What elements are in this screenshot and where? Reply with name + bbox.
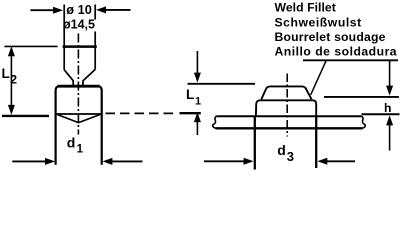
svg-text:Schweißwulst: Schweißwulst bbox=[275, 15, 362, 29]
svg-text:ø14,5: ø14,5 bbox=[63, 17, 95, 31]
weld fillet upper tier (stud flange) bbox=[261, 86, 311, 99]
svg-text:h: h bbox=[384, 101, 391, 115]
stud body d1 bbox=[56, 86, 102, 165]
centerline left figure bbox=[77, 34, 79, 135]
plate left broken edge bbox=[213, 116, 217, 128]
svg-text:Weld Fillet: Weld Fillet bbox=[275, 1, 336, 15]
L2 top extension line bbox=[5, 45, 58, 47]
weld fillet lower tier bbox=[256, 100, 316, 115]
underline of label bbox=[303, 59, 398, 61]
solid segment at L1 arrow bbox=[180, 112, 201, 114]
dashed weld-plane line between figures bbox=[106, 112, 179, 114]
L1 top extension line bbox=[188, 83, 256, 85]
svg-text:Bourrelet soudage: Bourrelet soudage bbox=[275, 30, 386, 44]
cone transition bbox=[64, 69, 95, 85]
h down arrow bbox=[386, 61, 393, 96]
extension line ø10 left bbox=[63, 5, 65, 47]
plate top edge bbox=[217, 115, 362, 117]
L1 up arrow bbox=[194, 112, 201, 135]
plate right broken edge bbox=[362, 116, 366, 128]
h up arrow bbox=[386, 115, 393, 150]
L2 dimension line with arrows bbox=[8, 46, 15, 115]
dimension arrow ø10 left bbox=[31, 7, 64, 14]
d3 extension line left bbox=[254, 116, 256, 170]
leader line to weld fillet bbox=[311, 60, 327, 95]
L1 down arrow bbox=[194, 51, 201, 83]
d3 extension line right bbox=[315, 116, 317, 168]
svg-text:ø 10: ø 10 bbox=[66, 2, 92, 17]
centerline right figure bbox=[286, 74, 288, 137]
tip chamfer V bbox=[57, 114, 101, 122]
weld plane line in body bbox=[57, 113, 101, 115]
d1 dimension arrows bbox=[12, 158, 142, 165]
extension line ø10 right (gap at text) bbox=[94, 5, 96, 47]
plate bottom edge bbox=[216, 127, 363, 129]
L2 bottom extension line bbox=[2, 115, 49, 117]
h bottom extension line bbox=[362, 113, 400, 115]
stud flange (cup) bbox=[63, 46, 97, 70]
d3 dimension arrows bbox=[204, 158, 355, 165]
h top extension line bbox=[324, 96, 399, 98]
svg-text:Anillo de soldadura: Anillo de soldadura bbox=[275, 45, 398, 59]
dimension arrow ø10 right bbox=[96, 6, 131, 13]
